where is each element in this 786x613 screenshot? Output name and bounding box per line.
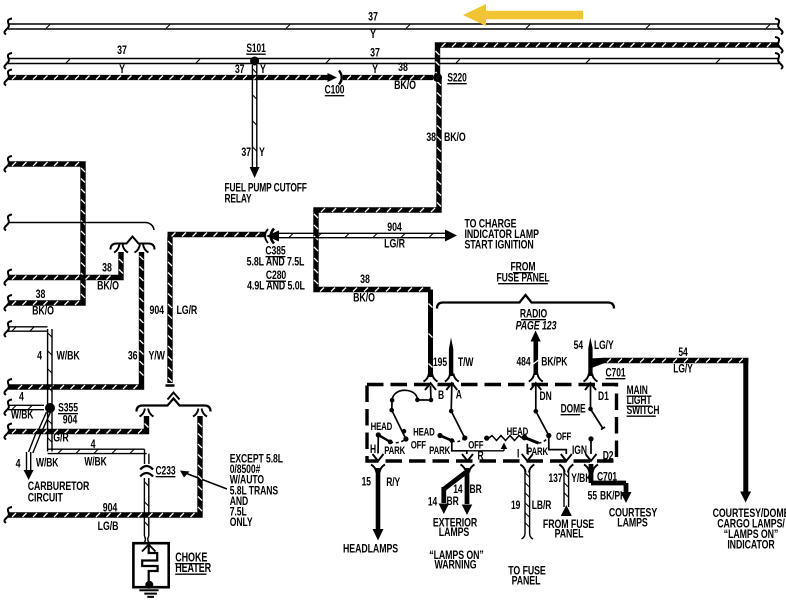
switch terminal DN xyxy=(529,374,534,382)
svg-text:BK/O: BK/O xyxy=(97,279,119,293)
vertical from S355 down and right: 4 W/BK to C233 and choke heater xyxy=(48,412,52,452)
wire 54 LG/Y from D1 up, bend right, to right edge and down to indicator xyxy=(588,338,592,377)
bottom: R splits to EXTERIOR LAMPS and LAMPS ON WARNING (14 BR) xyxy=(465,468,470,504)
svg-text:Y: Y xyxy=(260,63,266,77)
choke brace with caret xyxy=(137,399,211,412)
svg-text:PAGE 123: PAGE 123 xyxy=(516,319,557,333)
svg-text:W/BK: W/BK xyxy=(11,409,34,422)
svg-text:19: 19 xyxy=(511,500,521,513)
left side: 38 BK/O C-loop wire (break,164)-(83,164)-(83,303)-(break,303) xyxy=(8,162,85,305)
wire from S101 down to fuel pump cutoff relay (37 Y) xyxy=(252,65,256,167)
top horizontal wire 37 Y (circuit 37, yellow) xyxy=(8,24,779,29)
switch terminal D1 xyxy=(584,374,589,382)
svg-text:38: 38 xyxy=(426,131,436,145)
bottom: H to HEADLAMPS (15 R/Y) xyxy=(376,468,381,529)
wire below C233 into choke heater xyxy=(144,478,148,536)
splice S220 xyxy=(433,73,442,82)
svg-text:START IGNITION: START IGNITION xyxy=(465,238,534,252)
switch terminal A xyxy=(445,374,450,382)
svg-text:14: 14 xyxy=(453,484,463,497)
choke heater element xyxy=(142,545,157,581)
svg-text:OFF: OFF xyxy=(411,439,426,452)
svg-text:LB/R: LB/R xyxy=(532,500,552,513)
svg-text:R: R xyxy=(478,450,485,463)
svg-text:4: 4 xyxy=(91,438,96,452)
splice S355 xyxy=(45,403,55,413)
38 BK/O wire from break to riser under brace xyxy=(8,252,123,280)
svg-text:14: 14 xyxy=(428,496,438,509)
svg-text:PANEL: PANEL xyxy=(555,527,584,541)
svg-text:LAMPS: LAMPS xyxy=(617,516,647,530)
svg-text:38: 38 xyxy=(36,288,46,302)
svg-text:LG/R: LG/R xyxy=(384,237,405,251)
svg-text:PARK: PARK xyxy=(384,445,405,458)
svg-text:38: 38 xyxy=(102,261,112,275)
connector C385/C280 (arcs + arrow) xyxy=(265,229,268,243)
svg-text:4: 4 xyxy=(19,390,24,404)
904 LG/R wire: vertical + horizontal to connector xyxy=(168,237,172,383)
svg-text:55: 55 xyxy=(588,490,598,503)
bottom: D2 to courtesy lamps (55 BK/PK) xyxy=(591,464,626,492)
choke heater box xyxy=(133,543,168,587)
svg-text:LAMPS: LAMPS xyxy=(439,526,469,540)
svg-text:BK/O: BK/O xyxy=(32,304,54,318)
svg-text:BK/O: BK/O xyxy=(444,131,466,145)
ground symbol xyxy=(139,590,158,597)
switch internals: dome wafer (D1/D2) xyxy=(590,386,592,409)
svg-text:Y: Y xyxy=(119,63,125,77)
svg-text:HEAD: HEAD xyxy=(507,426,529,439)
svg-text:I: I xyxy=(517,448,519,461)
4 W/BK stub from break to S355 xyxy=(8,405,44,409)
svg-text:36: 36 xyxy=(128,349,138,363)
svg-text:BK/O: BK/O xyxy=(394,79,416,93)
904 LG/B wire from break to riser under choke brace xyxy=(8,416,202,517)
svg-text:38: 38 xyxy=(398,61,408,75)
splice S101 dot xyxy=(250,57,259,66)
svg-text:Y/W: Y/W xyxy=(149,349,166,363)
rheostat resistor xyxy=(489,436,522,441)
svg-text:4: 4 xyxy=(16,457,21,471)
switch terminal IGN xyxy=(561,454,572,461)
connector C233 xyxy=(140,466,153,470)
svg-text:54: 54 xyxy=(574,340,584,353)
svg-text:37: 37 xyxy=(370,46,380,60)
svg-text:W/BK: W/BK xyxy=(57,349,80,363)
36 Y/W riser and long horizontal xyxy=(135,245,140,253)
svg-text:137: 137 xyxy=(549,473,563,486)
svg-text:D2: D2 xyxy=(603,450,614,463)
svg-text:4.9L AND 5.0L: 4.9L AND 5.0L xyxy=(247,279,305,293)
svg-text:W/BK: W/BK xyxy=(36,457,59,470)
svg-text:PANEL: PANEL xyxy=(512,574,541,588)
38 BK/O path from S220 down to switch xyxy=(314,78,441,292)
svg-text:H: H xyxy=(370,444,376,457)
svg-text:LG/Y: LG/Y xyxy=(594,340,614,353)
main light switch dashed box xyxy=(367,385,617,462)
switch terminal B xyxy=(424,374,429,382)
svg-text:195: 195 xyxy=(433,357,447,370)
switch terminal I xyxy=(522,454,533,461)
svg-text:Y: Y xyxy=(370,28,376,42)
svg-text:5.8L AND 7.5L: 5.8L AND 7.5L xyxy=(247,255,305,269)
38 BK/O vertical down to terminal B xyxy=(429,290,433,378)
hatched wire 37 BK (third row) xyxy=(8,76,332,80)
svg-text:15: 15 xyxy=(362,476,372,489)
4 W/BK wire from break (y=329) down to S355 xyxy=(8,327,48,331)
svg-text:Y: Y xyxy=(259,146,265,160)
svg-text:54: 54 xyxy=(678,347,688,360)
svg-text:Y: Y xyxy=(372,63,378,77)
switch terminal R xyxy=(462,454,473,461)
svg-text:HEADLAMPS: HEADLAMPS xyxy=(343,542,398,556)
svg-text:G/R: G/R xyxy=(53,431,69,445)
svg-text:INDICATOR: INDICATOR xyxy=(727,538,775,552)
brace FROM FUSE PANEL xyxy=(437,295,614,309)
switch internals: third wafer (DN/I/IGN) with resistor xyxy=(536,386,549,436)
svg-text:BR: BR xyxy=(470,484,483,497)
wire 484 BK/PK from DN up to RADIO xyxy=(533,341,538,375)
svg-text:DN: DN xyxy=(540,391,552,404)
wire 195 T/W into terminal A xyxy=(449,338,453,377)
thin wire with hook (y=222) xyxy=(8,223,154,231)
svg-text:38: 38 xyxy=(360,273,370,287)
svg-text:904: 904 xyxy=(63,413,78,427)
904 G/R wire from break to riser under choke brace xyxy=(8,416,149,434)
svg-text:RELAY: RELAY xyxy=(225,193,252,206)
yellow highlight arrow pointing left xyxy=(463,4,583,26)
svg-text:ONLY: ONLY xyxy=(230,517,253,530)
svg-text:B: B xyxy=(438,390,444,403)
904 LG/R wire to charge indicator arrow xyxy=(279,233,447,237)
svg-text:HEATER: HEATER xyxy=(175,562,211,576)
switch internals: left wafer (B/H: HEAD PARK OFF) xyxy=(430,386,433,400)
svg-text:BR: BR xyxy=(447,496,460,509)
svg-text:W/BK: W/BK xyxy=(84,456,107,469)
switch terminal D2 xyxy=(586,454,597,461)
svg-text:904: 904 xyxy=(150,304,165,318)
svg-text:BK/PK: BK/PK xyxy=(541,356,568,369)
svg-text:904: 904 xyxy=(103,501,118,515)
svg-text:37: 37 xyxy=(235,63,245,77)
svg-text:4: 4 xyxy=(37,349,42,363)
svg-text:D1: D1 xyxy=(598,391,609,404)
svg-text:BK/O: BK/O xyxy=(353,291,375,305)
svg-text:HEAD: HEAD xyxy=(413,426,435,439)
bottom: IGN from fuse panel (137 Y/BK) xyxy=(564,470,569,507)
svg-text:904: 904 xyxy=(387,221,402,235)
svg-text:IGN: IGN xyxy=(572,445,587,458)
svg-text:LG/Y: LG/Y xyxy=(673,363,693,376)
svg-text:LG/B: LG/B xyxy=(98,520,119,534)
second wire 37 Y xyxy=(8,59,779,64)
bottom: I to fuse panel (19 LB/R) xyxy=(525,470,530,534)
svg-text:LG/R: LG/R xyxy=(177,304,198,318)
svg-text:R/Y: R/Y xyxy=(386,477,400,490)
svg-text:PARK: PARK xyxy=(527,446,548,459)
svg-text:484: 484 xyxy=(517,356,531,369)
connector C100 xyxy=(328,73,338,82)
annotation arrow to C233 from EXCEPT note xyxy=(184,473,227,490)
switch internals: second wafer (A/R) xyxy=(451,386,465,438)
svg-text:PARK: PARK xyxy=(429,445,450,458)
svg-text:37: 37 xyxy=(368,10,378,24)
svg-text:37: 37 xyxy=(241,146,251,160)
wire from S220 up and right (38 BK/O) xyxy=(436,43,780,80)
svg-text:37: 37 xyxy=(117,44,127,58)
svg-text:T/W: T/W xyxy=(458,357,474,370)
svg-text:BK/PK: BK/PK xyxy=(600,490,627,503)
svg-text:WARNING: WARNING xyxy=(435,558,477,572)
svg-text:CIRCUIT: CIRCUIT xyxy=(28,491,64,505)
svg-text:HEAD: HEAD xyxy=(371,421,393,434)
switch terminal H xyxy=(373,454,384,461)
diagonal from S355 down through 904 wire to carburetor circuit arrow xyxy=(39,412,51,430)
svg-text:OFF: OFF xyxy=(556,431,571,444)
svg-text:A: A xyxy=(456,389,463,402)
small brace upper-left xyxy=(111,237,155,250)
svg-text:OFF: OFF xyxy=(468,439,483,452)
